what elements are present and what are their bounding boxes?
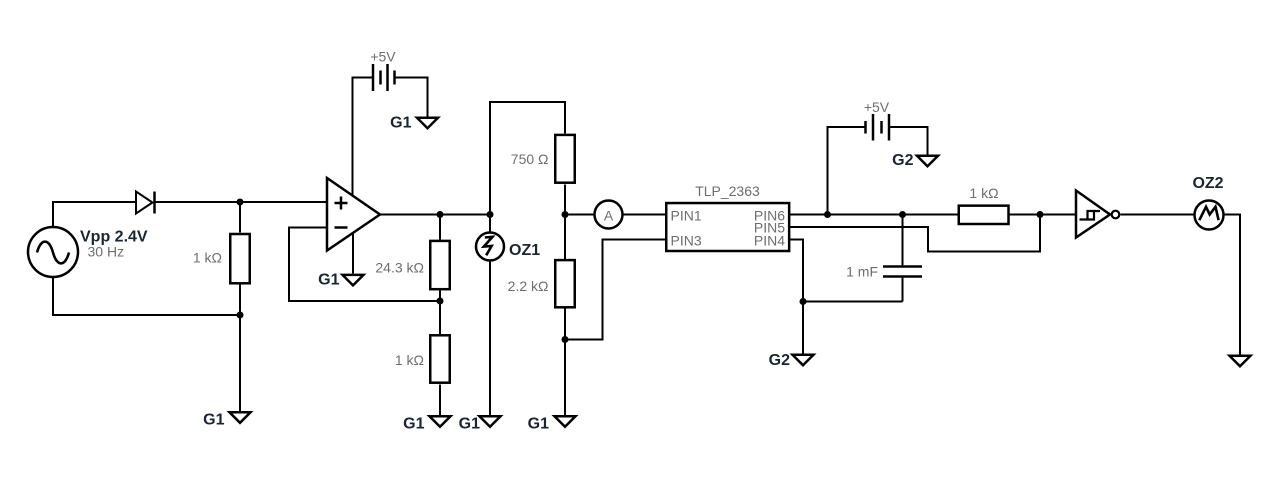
svg-text:1 kΩ: 1 kΩ <box>395 352 424 368</box>
svg-text:G1: G1 <box>390 115 411 132</box>
svg-text:PIN1: PIN1 <box>671 208 702 224</box>
svg-text:G1: G1 <box>203 412 224 429</box>
svg-text:1 kΩ: 1 kΩ <box>969 185 998 201</box>
svg-text:G2: G2 <box>892 152 913 169</box>
svg-text:G2: G2 <box>769 352 790 369</box>
svg-text:30 Hz: 30 Hz <box>88 244 125 260</box>
svg-text:G1: G1 <box>318 272 339 289</box>
svg-text:1 kΩ: 1 kΩ <box>193 250 222 266</box>
svg-text:1 mF: 1 mF <box>846 264 878 280</box>
svg-text:G1: G1 <box>459 416 480 433</box>
svg-text:2.2 kΩ: 2.2 kΩ <box>508 278 549 294</box>
svg-text:+5V: +5V <box>864 99 890 115</box>
svg-text:+5V: +5V <box>370 49 396 65</box>
svg-text:G1: G1 <box>528 416 549 433</box>
svg-text:750 Ω: 750 Ω <box>511 151 549 167</box>
svg-text:PIN3: PIN3 <box>671 232 702 248</box>
svg-text:OZ2: OZ2 <box>1192 175 1223 192</box>
svg-text:OZ1: OZ1 <box>509 242 540 259</box>
svg-text:PIN4: PIN4 <box>754 232 785 248</box>
svg-text:TLP_2363: TLP_2363 <box>695 183 760 199</box>
svg-text:A: A <box>604 208 614 224</box>
svg-text:G1: G1 <box>403 416 424 433</box>
svg-text:24.3 kΩ: 24.3 kΩ <box>375 260 424 276</box>
